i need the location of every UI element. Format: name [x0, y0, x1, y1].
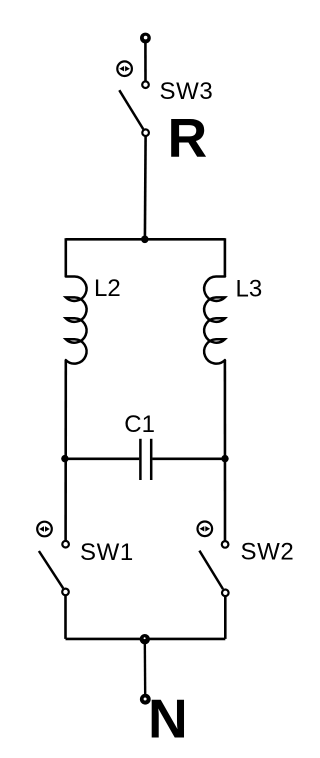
SW2 actuator icon — [198, 522, 213, 537]
wire C1 left lead — [65, 457, 139, 460]
SW1 actuator icon — [37, 522, 52, 537]
node right junction — [221, 455, 228, 462]
svg-text:N: N — [148, 688, 188, 750]
capacitor C1 — [140, 439, 151, 480]
inductor L2 — [66, 277, 87, 364]
terminal N (bottom) — [140, 694, 151, 705]
wire SW3 to top node — [144, 136, 147, 239]
wire bottom rail — [66, 638, 226, 641]
wire SW2 to bottom rail — [224, 596, 227, 639]
node bottom junction — [140, 634, 150, 644]
wire left rail upper — [65, 238, 68, 277]
svg-text:R: R — [168, 107, 208, 169]
wire right rail upper — [224, 238, 227, 277]
switch SW1 — [39, 541, 69, 595]
SW3 actuator icon — [117, 61, 132, 76]
svg-text:C1: C1 — [124, 411, 155, 438]
switch SW2 — [199, 541, 228, 596]
inductor L3 — [204, 277, 225, 364]
wire bottom node to terminal N — [144, 639, 147, 696]
wire right rail mid — [224, 360, 227, 542]
switch SW3 — [119, 81, 149, 136]
node left junction — [61, 455, 68, 462]
wire terminal-R to SW3 top contact — [144, 40, 147, 81]
svg-text:SW2: SW2 — [241, 539, 295, 566]
svg-text:SW3: SW3 — [160, 78, 214, 105]
node top junction — [141, 236, 149, 244]
wire SW1 to bottom rail — [64, 595, 67, 639]
terminal R (top) — [140, 33, 151, 44]
wire left rail mid — [64, 360, 67, 542]
svg-text:SW1: SW1 — [80, 539, 134, 566]
svg-text:L3: L3 — [236, 276, 263, 303]
wire top rail — [66, 238, 225, 241]
wire C1 right lead — [152, 457, 225, 460]
svg-text:L2: L2 — [94, 275, 121, 302]
